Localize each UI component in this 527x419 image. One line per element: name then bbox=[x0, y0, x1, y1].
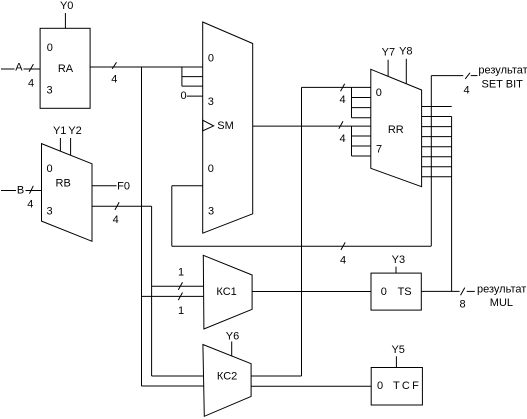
wire vertical D (SET BIT collector) bbox=[430, 76, 432, 246]
svg-text:Y7: Y7 bbox=[382, 46, 395, 58]
svg-text:RB: RB bbox=[56, 178, 71, 190]
constant 0 input to SM bbox=[180, 90, 202, 102]
control signal Y3 bbox=[392, 254, 405, 273]
svg-text:Y3: Y3 bbox=[392, 254, 405, 266]
svg-text:SM: SM bbox=[217, 120, 234, 132]
SM input bit ladder bbox=[182, 67, 203, 86]
svg-text:3: 3 bbox=[47, 206, 53, 218]
combinational block KC2 bbox=[203, 345, 251, 417]
control signal Y0 bbox=[60, 0, 73, 28]
register TCF bbox=[371, 368, 422, 406]
wire vertical B (RB bus down) bbox=[151, 206, 153, 376]
adder SM bbox=[203, 22, 253, 233]
svg-text:4: 4 bbox=[340, 133, 346, 145]
svg-text:0: 0 bbox=[47, 42, 53, 54]
svg-text:F0: F0 bbox=[117, 180, 130, 192]
bus RA output to SM bbox=[90, 62, 203, 85]
svg-text:4: 4 bbox=[340, 254, 346, 266]
svg-text:0: 0 bbox=[381, 286, 387, 298]
svg-text:результат: результат bbox=[478, 65, 527, 77]
svg-text:Y0: Y0 bbox=[60, 0, 73, 12]
control signals Y7 Y8 bbox=[382, 45, 413, 83]
wire vertical E (MUL collector) bbox=[451, 117, 453, 292]
svg-text:4: 4 bbox=[340, 94, 346, 106]
svg-text:RR: RR bbox=[388, 124, 404, 136]
RR output bit lines (8 rungs) bbox=[422, 107, 452, 177]
svg-text:A: A bbox=[15, 61, 23, 73]
svg-text:1: 1 bbox=[178, 267, 184, 279]
svg-text:MUL: MUL bbox=[490, 297, 513, 309]
svg-text:SET BIT: SET BIT bbox=[482, 78, 524, 90]
svg-text:TS: TS bbox=[398, 286, 412, 298]
svg-text:4: 4 bbox=[27, 199, 33, 211]
svg-text:7: 7 bbox=[376, 143, 382, 155]
wire KC1 input 2 bbox=[142, 295, 204, 297]
svg-text:0: 0 bbox=[180, 90, 186, 102]
input bus B bbox=[1, 184, 42, 210]
svg-text:0: 0 bbox=[46, 163, 52, 175]
bus RR input 1 bbox=[302, 84, 371, 118]
constant 1 labels bbox=[178, 267, 184, 317]
svg-text:8: 8 bbox=[459, 299, 465, 311]
wire vertical A (RA branch down) bbox=[141, 67, 143, 386]
control signal Y5 bbox=[391, 344, 404, 367]
output F0 bbox=[92, 180, 130, 192]
feedback bus to SM lower input bbox=[172, 186, 432, 266]
register RA bbox=[40, 28, 90, 108]
wire KC2 input 2 (from A) bbox=[142, 385, 204, 387]
svg-text:1: 1 bbox=[178, 305, 184, 317]
wire KC2 output up to RR (vertical C) bbox=[251, 87, 301, 376]
register RB bbox=[42, 144, 93, 242]
svg-text:Y2: Y2 bbox=[68, 125, 81, 137]
svg-text:Y6: Y6 bbox=[226, 330, 239, 342]
wire KC2 input 1 (from B) bbox=[152, 375, 204, 377]
svg-text:3: 3 bbox=[208, 96, 214, 108]
svg-text:B: B bbox=[17, 184, 24, 196]
bus SM output to RR input 2 bbox=[253, 121, 371, 156]
wire KC2 to TCF bbox=[251, 385, 371, 387]
svg-text:TCF: TCF bbox=[393, 380, 421, 392]
svg-text:3: 3 bbox=[208, 206, 214, 218]
svg-text:4: 4 bbox=[113, 214, 119, 226]
control signal Y6 bbox=[226, 330, 239, 356]
svg-text:Y8: Y8 bbox=[399, 45, 412, 57]
svg-text:Y1: Y1 bbox=[53, 125, 66, 137]
combinational block KC1 bbox=[203, 255, 252, 329]
svg-text:результат: результат bbox=[477, 284, 526, 296]
svg-text:RA: RA bbox=[58, 63, 74, 75]
svg-text:0: 0 bbox=[208, 53, 214, 65]
svg-text:4: 4 bbox=[111, 73, 117, 85]
svg-text:3: 3 bbox=[46, 85, 52, 97]
svg-text:КС1: КС1 bbox=[216, 286, 236, 298]
svg-text:КС2: КС2 bbox=[217, 371, 237, 383]
output MUL bbox=[421, 284, 526, 311]
register RR bbox=[371, 69, 422, 186]
control signals Y1 Y2 bbox=[53, 125, 82, 155]
wire KC1 to TS bbox=[252, 291, 371, 293]
input bus A bbox=[1, 61, 40, 89]
svg-text:Y5: Y5 bbox=[391, 344, 404, 356]
svg-text:4: 4 bbox=[464, 85, 470, 97]
svg-text:0: 0 bbox=[208, 163, 214, 175]
bus RB output down to KC blocks bbox=[92, 202, 152, 226]
output SET BIT bbox=[431, 65, 527, 97]
wire KC1 input 1 bbox=[152, 285, 204, 287]
svg-text:0: 0 bbox=[377, 380, 383, 392]
slash marks KC1 inputs bbox=[178, 282, 182, 300]
svg-text:4: 4 bbox=[28, 77, 34, 89]
register TS bbox=[371, 273, 421, 310]
svg-text:0: 0 bbox=[376, 87, 382, 99]
